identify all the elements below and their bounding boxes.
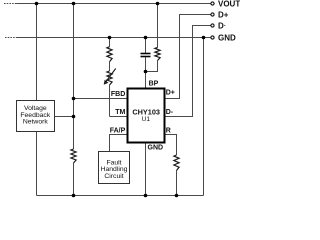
resistor lower feedback R bbox=[71, 149, 76, 163]
wire divider branch top (GND rail to upper resistor) bbox=[109, 38, 111, 47]
wire BP junction into IC top (BP pin) bbox=[145, 72, 147, 89]
wire BP capacitor branch top (GND rail to cap) bbox=[145, 38, 147, 54]
svg-text:D+: D+ bbox=[218, 10, 229, 19]
wire R pin to resistor bbox=[165, 135, 177, 156]
svg-text:GND: GND bbox=[218, 33, 236, 42]
terminal D+ bbox=[211, 13, 214, 16]
svg-text:D-: D- bbox=[166, 109, 174, 116]
wire BP resistor bottom to BP junction bbox=[146, 61, 158, 72]
svg-text:GND: GND bbox=[148, 145, 164, 152]
wire cap bottom to BP junction bbox=[145, 57, 147, 72]
svg-text:R: R bbox=[166, 127, 171, 134]
svg-text:U1: U1 bbox=[142, 116, 151, 123]
terminal GND bbox=[211, 36, 214, 39]
node bottom rail / feedback resistor bbox=[72, 194, 76, 198]
resistor divider upper bbox=[107, 47, 112, 62]
node VFN output junction bbox=[72, 115, 76, 119]
wire bottom ground return rail bbox=[37, 195, 204, 197]
node bottom rail / IC GND bbox=[144, 194, 148, 198]
wire resistor bottom to bottom rail bbox=[73, 163, 75, 196]
node VOUT rail / BP resistor branch bbox=[156, 2, 160, 6]
wire FBD pin bbox=[74, 98, 128, 100]
wire between divider resistors bbox=[109, 62, 111, 71]
wire BP resistor branch top (VOUT rail down) bbox=[157, 4, 159, 48]
wire FA/P pin to Fault Handling Circuit box bbox=[110, 135, 128, 152]
wire GND pin from IC bottom to bottom rail bbox=[145, 143, 147, 196]
svg-text:FA/P: FA/P bbox=[110, 127, 126, 134]
svg-text:VOUT: VOUT bbox=[218, 0, 240, 8]
wire GND rail bbox=[17, 37, 211, 39]
node VOUT rail / feedback branch bbox=[72, 2, 76, 6]
svg-text:D-: D- bbox=[218, 21, 226, 30]
svg-text:Circuit: Circuit bbox=[104, 173, 123, 180]
resistor R pin bbox=[174, 155, 179, 171]
box Fault Handling Circuit bbox=[99, 152, 130, 184]
svg-text:CHY103: CHY103 bbox=[132, 107, 160, 116]
svg-text:TM: TM bbox=[115, 109, 125, 116]
wire from VOUT rail down to Voltage Feedback Network box top bbox=[36, 4, 38, 101]
wire vertical feedback branch upper (VOUT rail to resistor top) bbox=[73, 4, 75, 150]
resistor adjustable (arrow) bbox=[107, 71, 112, 85]
wire ground return right vertical bbox=[203, 38, 205, 196]
resistor BP branch bbox=[155, 48, 160, 61]
svg-text:FBD: FBD bbox=[111, 91, 125, 98]
IC U1 CHY103 bbox=[128, 89, 165, 143]
node GND rail / BP cap branch bbox=[144, 36, 148, 40]
wire divider bottom to TM corner bbox=[109, 85, 111, 117]
arrow of adjustable resistor bbox=[104, 69, 116, 85]
wire GND rail dotted left end bbox=[5, 37, 17, 39]
node GND rail / ground return bbox=[202, 36, 206, 40]
capacitor BP bbox=[141, 54, 151, 57]
node GND rail / divider branch bbox=[108, 36, 112, 40]
svg-text:Network: Network bbox=[23, 119, 49, 126]
wire D+ pin to D+ terminal bbox=[165, 15, 211, 99]
wire Voltage Feedback Network box output to feedback branch bbox=[55, 116, 74, 118]
wire Voltage Feedback Network box bottom to bottom rail bbox=[36, 132, 38, 196]
wire VOUT rail dotted left end bbox=[4, 3, 17, 5]
box Voltage Feedback Network bbox=[17, 101, 55, 132]
svg-text:D+: D+ bbox=[166, 90, 175, 97]
wire VOUT rail bbox=[17, 3, 212, 5]
node BP junction bbox=[144, 70, 148, 74]
wire R resistor bottom to bottom rail bbox=[176, 171, 178, 196]
svg-text:BP: BP bbox=[149, 81, 159, 88]
node FBD wire junction bbox=[72, 97, 76, 101]
wire TM pin bbox=[110, 116, 128, 118]
wire D- pin to D- terminal bbox=[165, 26, 211, 117]
node bottom rail / R resistor bbox=[175, 194, 179, 198]
node VOUT rail / VFN branch bbox=[35, 2, 39, 6]
terminal VOUT bbox=[211, 2, 214, 5]
terminal D- bbox=[211, 24, 214, 27]
